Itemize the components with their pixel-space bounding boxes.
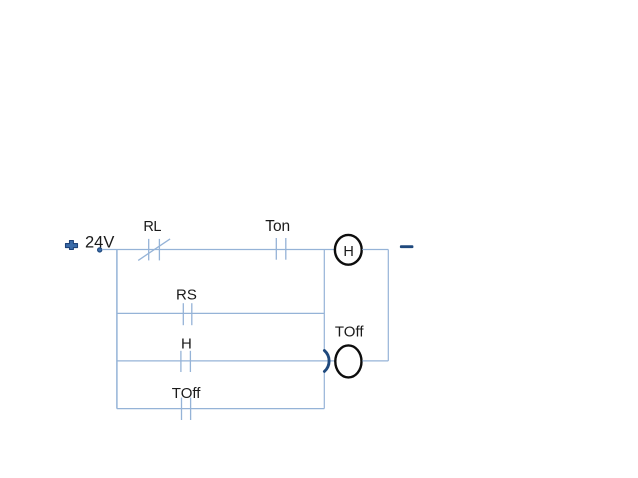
wire: left rail vertical <box>116 250 118 409</box>
svg-text:H: H <box>181 336 192 353</box>
contact TOff (normally open) <box>182 398 191 420</box>
+24V supply terminal (plus symbol) <box>66 241 78 250</box>
wire: RS rung <box>117 312 324 314</box>
wire: inner rail lower segment <box>323 372 325 409</box>
negative supply terminal (minus symbol) <box>400 245 414 248</box>
wire: bottom rung <box>117 408 324 410</box>
contact RL (normally closed) <box>138 239 170 261</box>
svg-text:TOff: TOff <box>172 385 201 402</box>
coil TOff (off-delay timer) <box>335 345 361 377</box>
svg-text:H: H <box>343 244 353 260</box>
contact Ton (normally open) <box>276 238 286 260</box>
timer arc of TOff coil (off-delay parenthesis) <box>324 351 329 372</box>
contact H (normally open) <box>181 351 191 372</box>
contact RS (normally open) <box>183 303 192 325</box>
svg-text:TOff: TOff <box>335 323 364 340</box>
wire: right rail vertical <box>387 250 389 361</box>
wire: TOff coil output to right rail <box>362 360 388 362</box>
node 24V (supply tap dot) <box>98 248 102 252</box>
wire: H rung <box>117 360 335 362</box>
svg-text:RS: RS <box>176 286 197 303</box>
wire: top rung from 24V node through RL and Ton contacts to H coil <box>102 249 335 251</box>
svg-text:Ton: Ton <box>265 218 290 235</box>
wire: inner rail upper segment <box>323 250 325 351</box>
coil H (output relay) <box>335 235 362 265</box>
wire: H coil output to right rail <box>362 249 388 251</box>
svg-text:RL: RL <box>143 219 161 235</box>
